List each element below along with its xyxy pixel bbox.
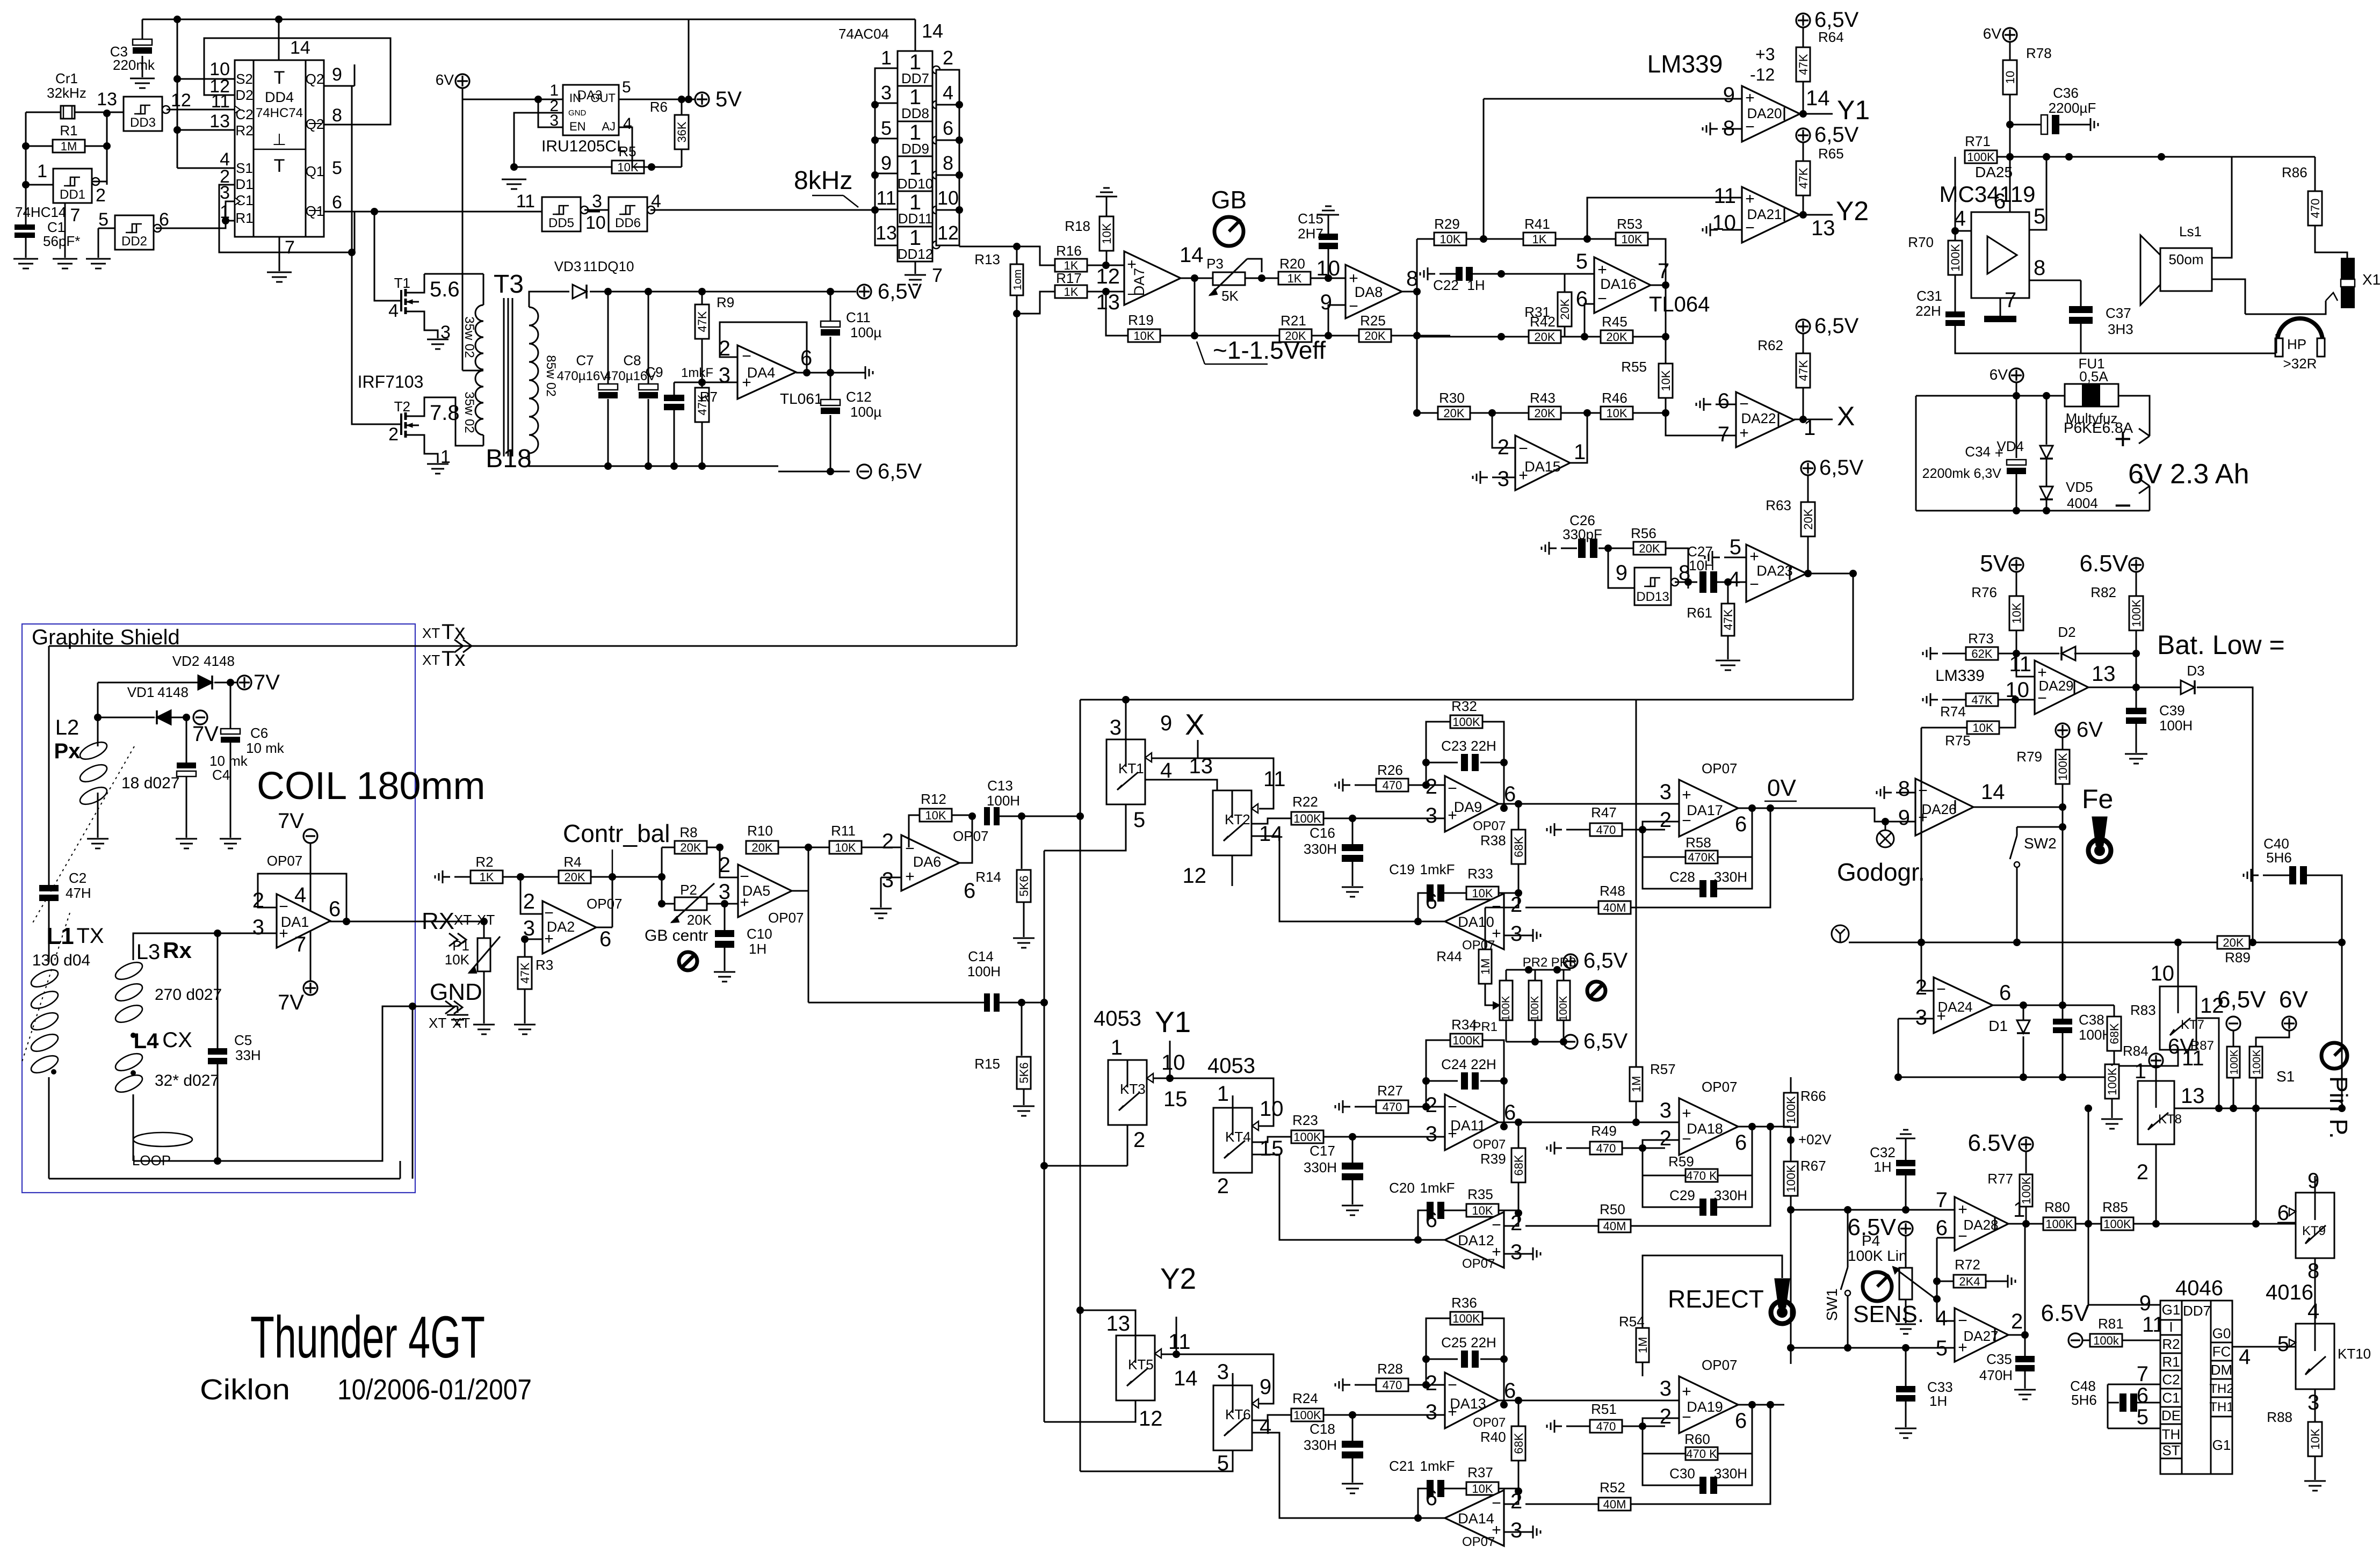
wire DD4 Q1bar to DD5 bbox=[355, 211, 600, 213]
wire to DA22 +in bbox=[1666, 413, 1736, 435]
label 4046 bbox=[2175, 1276, 2223, 1300]
wire DD13 out bbox=[1675, 578, 1697, 589]
svg-text:5H6: 5H6 bbox=[2266, 850, 2292, 866]
svg-text:1mkF: 1mkF bbox=[1420, 1180, 1455, 1196]
svg-text:4148: 4148 bbox=[157, 684, 189, 700]
resistor R5 bbox=[514, 143, 644, 174]
wire P1 wiper node bbox=[500, 935, 542, 943]
wire divider row to DA27 bbox=[1787, 1344, 1955, 1352]
svg-text:Contr_bal: Contr_bal bbox=[563, 819, 670, 847]
svg-text:Y1: Y1 bbox=[1155, 1005, 1191, 1039]
svg-text:DA19: DA19 bbox=[1687, 1399, 1723, 1415]
svg-text:+3: +3 bbox=[1755, 45, 1775, 64]
wire R55 bottom bbox=[1665, 398, 1667, 413]
svg-text:100K: 100K bbox=[2229, 1049, 2240, 1074]
svg-text:220mk: 220mk bbox=[113, 57, 155, 73]
resistor R32 bbox=[1450, 698, 1482, 729]
capacitor C37 bbox=[2069, 305, 2133, 353]
resistor R56 bbox=[1608, 525, 1666, 555]
svg-text:R79: R79 bbox=[2016, 749, 2042, 765]
svg-text:TH2: TH2 bbox=[2209, 1382, 2233, 1396]
wire node vertical x199 bbox=[106, 113, 108, 185]
svg-text:1H: 1H bbox=[749, 941, 766, 957]
junction L3 DA1 bbox=[214, 930, 221, 937]
svg-text:C24: C24 bbox=[1441, 1056, 1467, 1072]
svg-text:1: 1 bbox=[1217, 1082, 1229, 1106]
svg-text:3: 3 bbox=[592, 191, 602, 212]
svg-text:C22: C22 bbox=[1433, 277, 1459, 293]
svg-text:2: 2 bbox=[1426, 1093, 1437, 1117]
wire DA7 out bbox=[1181, 274, 1213, 282]
svg-text:3: 3 bbox=[1426, 1122, 1437, 1146]
svg-text:R45: R45 bbox=[1602, 314, 1627, 330]
power flag 5V batmon bbox=[1980, 550, 2023, 577]
svg-text:Godogr.: Godogr. bbox=[1837, 858, 1925, 886]
svg-text:18 d027: 18 d027 bbox=[121, 774, 179, 792]
svg-text:20K: 20K bbox=[1285, 329, 1306, 343]
wire x330 vertical bbox=[177, 19, 178, 168]
svg-text:C13: C13 bbox=[987, 778, 1013, 794]
svg-text:7: 7 bbox=[294, 933, 306, 956]
transformer T3 core bbox=[504, 298, 512, 456]
resistor R82 bbox=[2090, 572, 2143, 687]
resistor R10 bbox=[720, 823, 778, 854]
wire DA14 out bbox=[1252, 1433, 1445, 1522]
wire KT10 in wedge bbox=[2289, 1339, 2296, 1347]
svg-text:3: 3 bbox=[1915, 1006, 1927, 1029]
svg-text:1H: 1H bbox=[1873, 1159, 1891, 1175]
signal ground R27 bbox=[1335, 1100, 1376, 1113]
wire R78 down bbox=[2009, 125, 2011, 157]
ground C35 bbox=[2014, 1390, 2036, 1399]
resistor R6 bbox=[650, 99, 689, 167]
svg-text:20K: 20K bbox=[1443, 406, 1464, 420]
wire DA2 -in bbox=[520, 877, 542, 914]
svg-text:-12: -12 bbox=[1750, 65, 1775, 84]
svg-text:−: − bbox=[1739, 395, 1749, 413]
label LM339 bbox=[1647, 50, 1723, 78]
wire VD junction bbox=[94, 683, 102, 746]
power flag -7V DA1 bbox=[278, 809, 317, 911]
svg-text:R85: R85 bbox=[2102, 1199, 2128, 1215]
svg-text:100µ: 100µ bbox=[850, 324, 881, 340]
wire R8085 node up bbox=[2088, 1108, 2089, 1224]
wire DA23 feedback left bbox=[1080, 699, 1853, 701]
resistor R15 bbox=[974, 1003, 1031, 1105]
IC DD7 4046 body bbox=[2160, 1301, 2232, 1474]
label 8kHz bbox=[794, 166, 858, 207]
svg-text:3H3: 3H3 bbox=[2108, 321, 2133, 337]
svg-text:R21: R21 bbox=[1281, 313, 1306, 329]
svg-text:20K: 20K bbox=[687, 912, 712, 928]
wire shield left down bbox=[48, 646, 50, 885]
svg-text:TL061: TL061 bbox=[780, 390, 822, 407]
svg-text:RX: RX bbox=[422, 908, 454, 934]
capacitor C40 bbox=[2244, 836, 2342, 942]
wire KT7 pin12 bbox=[2196, 1018, 2219, 1108]
svg-text:DA23: DA23 bbox=[1756, 563, 1793, 579]
svg-text:470 K: 470 K bbox=[1686, 1447, 1717, 1461]
svg-text:DA9: DA9 bbox=[1454, 799, 1482, 815]
svg-text:3: 3 bbox=[1426, 804, 1437, 827]
svg-text:TX: TX bbox=[76, 924, 104, 948]
wire Fe node bbox=[2059, 807, 2066, 831]
svg-text:1K: 1K bbox=[480, 870, 494, 884]
svg-text:D1: D1 bbox=[235, 176, 253, 192]
svg-text:9: 9 bbox=[1723, 83, 1735, 107]
wire C27 out bbox=[1717, 578, 1746, 586]
4046 G0 out bbox=[2232, 1341, 2296, 1369]
analog switch KT5 bbox=[1116, 1335, 1161, 1400]
wire R23 out bbox=[1323, 1133, 1445, 1141]
4046 right cells bbox=[2211, 1342, 2232, 1417]
KT6 pin3 stub bbox=[1232, 1373, 1234, 1385]
wire top rail drop bbox=[688, 19, 690, 99]
svg-text:4: 4 bbox=[1728, 568, 1740, 591]
wire to P2 R8 bbox=[658, 847, 665, 907]
capacitor C6 bbox=[221, 683, 285, 838]
wire battery left loop bbox=[1915, 396, 1917, 511]
svg-text:100K: 100K bbox=[1529, 996, 1541, 1021]
wire R54 top bbox=[1643, 1255, 1782, 1328]
svg-text:10K: 10K bbox=[1100, 223, 1113, 244]
wire DA8 node vertical bbox=[1416, 239, 1418, 413]
capacitor C10 bbox=[715, 904, 772, 971]
DD4 C2 clock wedge bbox=[235, 106, 240, 113]
svg-text:100K: 100K bbox=[1558, 996, 1569, 1021]
wire C14 to KT5 pin12 bbox=[1044, 1400, 1135, 1422]
svg-text:100K: 100K bbox=[2056, 753, 2070, 781]
capacitor C13 bbox=[984, 778, 1020, 825]
label 0V bbox=[1764, 775, 1797, 801]
label battery minus bbox=[2114, 488, 2132, 522]
wire DA19 out bbox=[1738, 1401, 1770, 1408]
svg-text:DA6: DA6 bbox=[913, 854, 942, 870]
svg-text:C34: C34 bbox=[1965, 444, 1991, 460]
KT9 pin9 bbox=[2307, 1169, 2319, 1193]
svg-text:S1: S1 bbox=[236, 160, 253, 176]
ground DA6 +in bbox=[870, 909, 892, 918]
wire 6V to T3 tap bbox=[462, 99, 464, 371]
wire IRU OUT 5V bbox=[619, 96, 695, 103]
wire DA12 -in bbox=[1504, 1213, 1518, 1226]
svg-text:−: − bbox=[1127, 286, 1137, 303]
svg-text:R55: R55 bbox=[1621, 359, 1647, 375]
power flag 6V battery bbox=[1990, 366, 2023, 383]
wire Ls1 bottom bbox=[2212, 279, 2245, 314]
svg-text:HP: HP bbox=[2287, 336, 2306, 352]
wire DA29 +in bbox=[2016, 673, 2035, 677]
wire DD1 pin7 gnd bbox=[64, 204, 66, 258]
wire DA9 out bbox=[1499, 800, 1679, 808]
ground DD4 pin7 bbox=[267, 272, 292, 282]
74AC04 left pin boxes bbox=[875, 68, 898, 245]
svg-text:1: 1 bbox=[881, 47, 892, 69]
wire DA18 -in bbox=[1643, 1140, 1679, 1148]
wire DA5 node down bbox=[808, 891, 809, 1003]
svg-text:13: 13 bbox=[1096, 291, 1120, 314]
junction DA4 +in bbox=[698, 379, 706, 386]
74AC04 out pin 6 bbox=[943, 117, 953, 139]
svg-text:22H: 22H bbox=[1915, 303, 1941, 319]
svg-text:10K: 10K bbox=[1621, 233, 1642, 246]
wire KT10 pin3 bbox=[2314, 1389, 2316, 1422]
KT6 pins bbox=[1217, 1360, 1272, 1475]
4046 pin6 bbox=[2137, 1384, 2148, 1407]
svg-text:11: 11 bbox=[1713, 184, 1736, 208]
svg-text:6: 6 bbox=[2277, 1201, 2289, 1225]
svg-text:32kHz: 32kHz bbox=[47, 85, 86, 101]
svg-text:9: 9 bbox=[1260, 1375, 1271, 1399]
svg-text:22H: 22H bbox=[1471, 1334, 1496, 1351]
wire HP line bbox=[2245, 301, 2326, 314]
svg-text:R35: R35 bbox=[1467, 1186, 1493, 1202]
capacitor C18 bbox=[1304, 1415, 1363, 1483]
svg-text:C32: C32 bbox=[1870, 1144, 1896, 1160]
potentiometer P4 bbox=[1893, 1236, 1936, 1323]
svg-text:10K: 10K bbox=[2309, 1428, 2322, 1449]
svg-text:4004: 4004 bbox=[2067, 495, 2098, 511]
svg-text:+: + bbox=[1448, 807, 1457, 824]
signal ground R73 bbox=[1923, 647, 1966, 660]
wire C14 out bbox=[1000, 999, 1044, 1006]
ground T2 bbox=[427, 464, 448, 474]
resistor R4 bbox=[559, 854, 591, 884]
capacitor C1 bars bbox=[15, 217, 80, 258]
4046 pin7 bbox=[2137, 1362, 2148, 1386]
signal ground DA12 +in bbox=[1504, 1247, 1540, 1260]
wire T3 sec bottom bbox=[529, 454, 556, 466]
svg-text:VD5: VD5 bbox=[2066, 479, 2093, 495]
svg-text:10K: 10K bbox=[1972, 721, 1993, 735]
svg-text:−: − bbox=[1448, 1376, 1457, 1394]
svg-text:9: 9 bbox=[1320, 291, 1332, 314]
wire divider row to DA28 bbox=[1787, 1206, 1955, 1214]
wire R25 out bbox=[1391, 332, 1450, 339]
svg-text:10: 10 bbox=[1316, 257, 1341, 280]
wire DD4 D1 feedback bbox=[219, 185, 355, 252]
wire T1 source gnd bbox=[424, 320, 438, 338]
diode VD3 bbox=[554, 258, 634, 299]
svg-text:R50: R50 bbox=[1600, 1201, 1625, 1217]
svg-text:1: 1 bbox=[2135, 1059, 2146, 1083]
svg-text:7: 7 bbox=[1936, 1188, 1948, 1212]
power flag 6,5V R63 bbox=[1801, 456, 1864, 480]
coil L3 Rx bbox=[113, 938, 222, 1038]
74AC04 pin 9 bbox=[881, 152, 892, 174]
IC DD4 74HC74 body bbox=[235, 60, 324, 237]
svg-text:Ls1: Ls1 bbox=[2179, 223, 2202, 239]
svg-text:3: 3 bbox=[1660, 1377, 1672, 1400]
wire R29 row bbox=[1417, 238, 1434, 240]
svg-text:6: 6 bbox=[1735, 812, 1747, 836]
svg-text:100K: 100K bbox=[2106, 1068, 2119, 1095]
resistor R77 body bbox=[2020, 1151, 2033, 1224]
junction gnd R5 bbox=[510, 163, 518, 171]
svg-text:7: 7 bbox=[2137, 1362, 2148, 1386]
capacitor C27 bbox=[1687, 543, 1717, 593]
svg-text:C21: C21 bbox=[1389, 1458, 1415, 1474]
svg-text:10K: 10K bbox=[2010, 602, 2023, 623]
svg-text:R74: R74 bbox=[1940, 703, 1966, 720]
svg-text:6: 6 bbox=[1426, 890, 1437, 913]
svg-text:R58: R58 bbox=[1685, 834, 1711, 851]
wire DD4 R2 bbox=[177, 129, 235, 131]
op-amp DA15 bbox=[1498, 435, 1586, 491]
svg-text:OP07: OP07 bbox=[953, 828, 989, 844]
svg-text:6.5V: 6.5V bbox=[1967, 1130, 2016, 1156]
graphite shield box bbox=[22, 624, 415, 1193]
signal ground R74 bbox=[1923, 693, 1966, 706]
4046 right labels bbox=[2209, 1325, 2233, 1453]
label xt Tx top bbox=[422, 620, 465, 644]
svg-text:R84: R84 bbox=[2123, 1043, 2148, 1059]
svg-text:T: T bbox=[274, 68, 285, 88]
svg-text:OP07: OP07 bbox=[1702, 1079, 1738, 1095]
diode VD4 TVS bbox=[1996, 396, 2133, 459]
svg-text:−: − bbox=[1958, 1312, 1967, 1330]
wire KT8 pin2 down bbox=[2155, 1166, 2157, 1224]
svg-text:1: 1 bbox=[2013, 1198, 2025, 1222]
svg-text:C23: C23 bbox=[1441, 738, 1467, 754]
svg-text:5: 5 bbox=[1576, 250, 1588, 273]
svg-text:6,5V: 6,5V bbox=[1583, 1029, 1628, 1053]
svg-text:330H: 330H bbox=[1304, 1159, 1337, 1175]
svg-text:5.6: 5.6 bbox=[430, 278, 460, 301]
svg-text:7: 7 bbox=[1658, 259, 1669, 283]
dashed core L1 bbox=[21, 913, 70, 1063]
svg-text:100K: 100K bbox=[2251, 1049, 2263, 1074]
capacitor C15 bbox=[1298, 206, 1339, 278]
coil L4 CX bbox=[113, 1020, 219, 1161]
svg-text:10H: 10H bbox=[1689, 557, 1715, 573]
svg-text:2: 2 bbox=[1510, 893, 1522, 917]
svg-text:8: 8 bbox=[2307, 1259, 2319, 1283]
svg-text:5: 5 bbox=[2137, 1405, 2148, 1429]
capacitor C38 bbox=[2053, 1005, 2112, 1077]
svg-text:9: 9 bbox=[332, 64, 342, 85]
svg-text:−: − bbox=[2037, 689, 2047, 707]
resistor R81 bbox=[2090, 1313, 2165, 1347]
wire DA29 -in bbox=[2015, 700, 2035, 702]
svg-text:4: 4 bbox=[1954, 207, 1966, 230]
wire Y1 sense up bbox=[1483, 99, 1485, 239]
svg-text:−: − bbox=[1448, 780, 1457, 797]
resistor R76 bbox=[1971, 572, 2023, 673]
wire R21-R25 bbox=[1312, 332, 1359, 339]
svg-text:6: 6 bbox=[1426, 1486, 1437, 1510]
title text bbox=[250, 1304, 485, 1370]
power flag +6.5V top bbox=[857, 280, 922, 303]
wire Tx line bbox=[49, 645, 1017, 647]
ground R61 bbox=[1716, 660, 1740, 670]
svg-text:R86: R86 bbox=[2282, 164, 2307, 180]
svg-text:3: 3 bbox=[2307, 1391, 2319, 1414]
svg-text:2: 2 bbox=[2011, 1310, 2023, 1333]
op-amp DA27 bbox=[1936, 1306, 2023, 1362]
wire P4 wiper bbox=[1936, 1298, 1937, 1299]
analog switch KT1 bbox=[1106, 739, 1152, 804]
wire R82 to C39 bbox=[2136, 687, 2137, 708]
svg-text:470: 470 bbox=[1383, 1100, 1402, 1114]
resistor R74 bbox=[1940, 693, 2019, 720]
svg-text:C15: C15 bbox=[1298, 210, 1323, 227]
wire DD4 S1 bbox=[177, 168, 235, 169]
svg-text:R1: R1 bbox=[235, 210, 253, 226]
svg-text:6: 6 bbox=[1576, 287, 1588, 311]
power flag 6,5V DA22 bbox=[1796, 314, 1859, 338]
svg-text:P2: P2 bbox=[680, 882, 697, 898]
MC34119 pins bbox=[1954, 190, 2046, 312]
svg-text:6: 6 bbox=[1936, 1216, 1948, 1240]
svg-text:Tx: Tx bbox=[442, 647, 465, 671]
svg-text:C20: C20 bbox=[1389, 1180, 1415, 1196]
KT8 pin13 bbox=[2181, 1084, 2205, 1108]
svg-text:8: 8 bbox=[332, 105, 342, 126]
svg-text:8kHz: 8kHz bbox=[794, 166, 852, 195]
wire R26 out bbox=[1408, 781, 1445, 789]
wire R30 row bbox=[1413, 409, 1438, 417]
svg-text:6.5V: 6.5V bbox=[2041, 1300, 2089, 1326]
svg-text:10: 10 bbox=[2151, 962, 2175, 985]
svg-text:R25: R25 bbox=[1360, 313, 1386, 329]
wire DD2 out to DD4 bbox=[156, 201, 235, 228]
capacitor C22 bbox=[1420, 267, 1565, 293]
resistor R84 bbox=[2105, 1043, 2148, 1118]
svg-text:D3: D3 bbox=[2187, 663, 2204, 679]
svg-text:R76: R76 bbox=[1971, 584, 1997, 600]
wire battery bottom rail bbox=[1916, 507, 2150, 514]
resistor R2 bbox=[471, 854, 503, 884]
resistor R24 bbox=[1291, 1390, 1323, 1422]
wire DD4 pin14 bbox=[278, 19, 280, 60]
svg-text:LM339: LM339 bbox=[1647, 50, 1723, 78]
svg-text:7: 7 bbox=[70, 205, 81, 226]
svg-text:5: 5 bbox=[1730, 535, 1741, 559]
op-amp DA13 bbox=[1426, 1371, 1516, 1445]
74AC04 out pin 2 bbox=[943, 47, 953, 69]
svg-text:X1: X1 bbox=[2362, 271, 2380, 288]
wire DA12 out bbox=[1252, 1155, 1445, 1244]
label DD7 bbox=[2183, 1303, 2211, 1319]
label REJECT bbox=[1668, 1285, 1764, 1313]
svg-text:Q2: Q2 bbox=[306, 71, 324, 87]
wire R30-R43 bbox=[1470, 409, 1529, 417]
svg-text:6: 6 bbox=[2137, 1384, 2148, 1407]
wire DA13 out bbox=[1499, 1397, 1679, 1404]
trimmer PR2 bbox=[1523, 955, 1548, 1021]
KT7 pins bbox=[2151, 962, 2224, 1070]
svg-text:62K: 62K bbox=[1971, 647, 1992, 660]
svg-text:KT7: KT7 bbox=[2181, 1018, 2204, 1032]
power flag +6,5V PR bbox=[1564, 949, 1628, 972]
label R77 bbox=[1987, 1171, 2013, 1187]
svg-text:47K: 47K bbox=[518, 962, 532, 983]
wire Y1 gate to KT4 bbox=[1166, 1074, 1274, 1126]
label +3 -12 bbox=[1750, 45, 1775, 84]
svg-text:6: 6 bbox=[1999, 981, 2011, 1005]
svg-text:470: 470 bbox=[1596, 823, 1616, 837]
resistor R39 68K bbox=[1511, 1122, 1525, 1217]
wire KT1 pin3 up bbox=[1125, 720, 1127, 739]
wire DA2x minus bus bbox=[1933, 1238, 1955, 1321]
svg-text:10K: 10K bbox=[1659, 370, 1673, 391]
wire Y2 gate to KT6 bbox=[1173, 1351, 1274, 1404]
svg-text:T2: T2 bbox=[394, 398, 410, 415]
resistor R72 bbox=[1937, 1257, 2015, 1288]
svg-text:5V: 5V bbox=[715, 88, 742, 111]
svg-text:100K: 100K bbox=[1967, 150, 1995, 164]
